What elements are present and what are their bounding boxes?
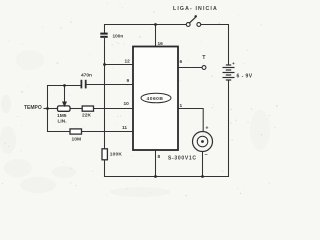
node pin16 junction <box>154 23 157 26</box>
buzzer BZ S-300V1C <box>168 126 213 162</box>
svg-text:+: + <box>206 126 209 132</box>
wire bottom rail 0V <box>105 176 229 178</box>
svg-text:+: + <box>232 62 235 67</box>
wire TEMPO stub <box>44 108 58 110</box>
svg-text:6: 6 <box>180 59 183 65</box>
potentiometer P1 1M5 <box>57 102 70 125</box>
pin 16 label <box>158 41 164 47</box>
node reset-pin12 junction <box>103 63 106 66</box>
svg-text:8: 8 <box>158 154 161 160</box>
svg-text:LIN.: LIN. <box>58 119 67 125</box>
wire pin 11 line <box>48 131 134 133</box>
switch LIGA-INICIA <box>173 6 218 26</box>
wire pin 6 to terminal T <box>178 67 202 69</box>
svg-text:100n: 100n <box>113 34 124 39</box>
pin 10 label <box>124 101 130 107</box>
pin 9 label <box>127 78 130 84</box>
svg-text:4060B: 4060B <box>147 96 164 102</box>
wire buzzer to bottom rail <box>202 152 204 177</box>
svg-text:S-300V1C: S-300V1C <box>168 156 197 162</box>
pin 8 label <box>158 154 161 160</box>
svg-text:6 - 9V: 6 - 9V <box>237 74 253 80</box>
wire pin 12 to reset node <box>105 64 134 66</box>
pin 1 label <box>180 103 183 109</box>
wire pin 9 line with 470n <box>48 85 134 86</box>
resistor 22K <box>82 106 94 119</box>
wire pot wiper to pin9 line <box>64 86 66 102</box>
battery B1 6-9V <box>223 65 235 80</box>
svg-text:22K: 22K <box>82 113 91 119</box>
svg-text:−: − <box>205 153 208 159</box>
IC U1 4060B <box>133 47 178 151</box>
node wiper junction <box>63 84 66 87</box>
svg-text:1: 1 <box>180 103 183 109</box>
svg-text:470n: 470n <box>81 73 92 79</box>
svg-text:16: 16 <box>158 41 164 47</box>
svg-text:12: 12 <box>125 59 131 65</box>
pin 12 label <box>125 59 131 65</box>
svg-text:100K: 100K <box>110 152 123 158</box>
svg-text:11: 11 <box>122 125 127 131</box>
pin 11 label <box>122 125 127 131</box>
wire pin 1 to buzzer <box>178 109 203 132</box>
svg-text:TEMPO: TEMPO <box>24 105 42 111</box>
node TEMPO vertical <box>47 86 49 132</box>
wire 22K to pin 10 <box>94 108 134 110</box>
wire top rail V+ <box>105 24 229 26</box>
node buzzer rail junction <box>201 175 204 178</box>
capacitor C1 100n <box>100 33 123 39</box>
wire pot to 22K <box>70 108 82 110</box>
wire switch left lead <box>156 24 187 26</box>
resistor 10M <box>70 129 82 142</box>
wire pin 8 down <box>155 150 157 177</box>
pin 6 label <box>180 59 183 65</box>
node pin8 rail junction <box>154 175 157 178</box>
wire reset branch vertical <box>104 25 106 177</box>
svg-text:9: 9 <box>127 78 130 84</box>
svg-text:10M: 10M <box>72 136 82 142</box>
wire battery branch right side <box>228 25 230 177</box>
terminal T <box>202 55 206 70</box>
svg-text:10: 10 <box>124 101 130 107</box>
node TEMPO junction <box>46 107 49 110</box>
capacitor C2 470n <box>81 73 93 89</box>
wire pin 16 to top rail <box>155 25 157 47</box>
svg-text:1M5: 1M5 <box>57 113 67 119</box>
svg-text:LIGA- INICIA: LIGA- INICIA <box>173 6 218 12</box>
node TEMPO label <box>24 105 42 111</box>
resistor 100K <box>102 149 122 160</box>
